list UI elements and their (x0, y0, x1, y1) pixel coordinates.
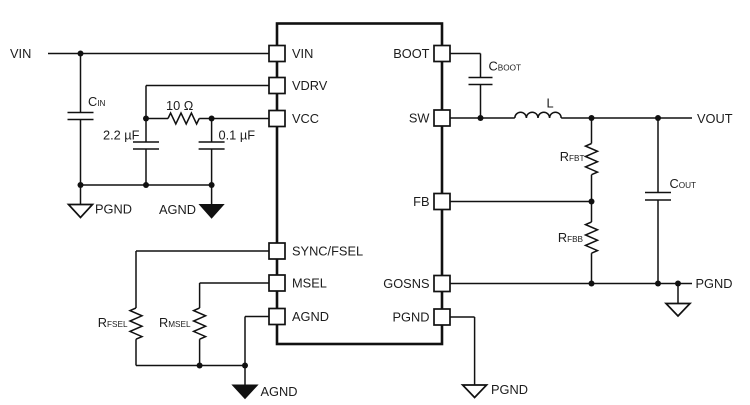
node junction CIN/rail (78, 182, 84, 188)
op-amp U1 (IC body) (277, 24, 442, 345)
svg-text:MSEL: MSEL (292, 276, 327, 291)
wire VIN input to pin (48, 53, 269, 55)
svg-text:10 Ω: 10 Ω (166, 98, 194, 113)
inductor L (515, 96, 561, 119)
ground PGND (bottom, open triangle) (463, 382, 528, 398)
capacitor COUT (645, 118, 696, 284)
resistor 10 Ohm (146, 98, 212, 124)
wire VDRV to divider (146, 86, 269, 119)
svg-text:AGND: AGND (261, 384, 298, 399)
svg-text:PGND: PGND (95, 202, 132, 217)
svg-text:SYNC/FSEL: SYNC/FSEL (292, 244, 363, 259)
wire SW to inductor (450, 117, 515, 119)
svg-text:BOOT: BOOT (393, 46, 429, 61)
pin VCC (269, 111, 285, 127)
svg-text:PGND: PGND (393, 310, 430, 325)
resistor RFBB (558, 202, 598, 284)
wire AGND pin to ground (245, 317, 269, 386)
svg-text:0.1 µF: 0.1 µF (219, 128, 256, 143)
wire CIN top lead (80, 54, 82, 113)
svg-text:AGND: AGND (292, 309, 329, 324)
node junction AGND/rail (242, 363, 248, 369)
node junction 0.1uF/rail (209, 182, 215, 188)
node junction VIN/CIN (78, 51, 84, 57)
node junction COUT/VOUT (655, 115, 661, 121)
svg-text:AGND: AGND (159, 202, 196, 217)
wire PGND pin to ground (450, 317, 475, 385)
wire CIN bottom lead (80, 120, 82, 186)
ground AGND (bottom, filled triangle) (233, 384, 298, 399)
wire inductor to VOUT (561, 117, 692, 119)
wire SYNC/FSEL to RFSEL (136, 251, 269, 308)
wire GOSNS rail (450, 283, 692, 285)
node junction VDRV/10ohm (143, 116, 149, 122)
node junction PGND/GOSNS (675, 281, 681, 287)
wire left ground rail (81, 184, 212, 186)
svg-text:PGND: PGND (491, 382, 528, 397)
wire FB to divider (450, 201, 592, 203)
node junction FB/divider (589, 199, 595, 205)
node junction CBOOT/SW (478, 115, 484, 121)
svg-text:VDRV: VDRV (292, 78, 328, 93)
svg-text:VCC: VCC (292, 111, 319, 126)
pin BOOT (434, 46, 450, 62)
wire bottom AGND rail (136, 365, 245, 367)
ground PGND (right, open triangle) (666, 284, 690, 317)
resistor RFSEL (98, 308, 142, 366)
ground AGND (left, filled triangle) (159, 185, 224, 218)
node junction RMSEL/rail (197, 363, 203, 369)
capacitor CIN (68, 94, 106, 120)
svg-text:L: L (547, 96, 554, 111)
node junction 2.2uF/rail (143, 182, 149, 188)
node junction RFBB/GOSNS (589, 281, 595, 287)
node junction COUT/GOSNS (655, 281, 661, 287)
node junction 10ohm/VCC (209, 116, 215, 122)
pin AGND (269, 309, 285, 325)
svg-text:SW: SW (409, 111, 431, 126)
pin GOSNS (434, 276, 450, 292)
capacitor CBOOT (469, 59, 521, 119)
ground PGND (left, open triangle) (69, 202, 132, 218)
pin FB (434, 194, 450, 210)
capacitor 0.1uF (199, 119, 256, 186)
svg-text:FB: FB (413, 194, 429, 209)
svg-text:VIN: VIN (292, 46, 313, 61)
wire MSEL to RMSEL (200, 283, 269, 308)
svg-text:VOUT: VOUT (697, 111, 733, 126)
pin SW (434, 110, 450, 126)
resistor RFBT (560, 118, 598, 202)
svg-text:VIN: VIN (10, 46, 31, 61)
wire VCC pin lead (212, 118, 269, 120)
pin SYNC/FSEL (269, 243, 285, 259)
capacitor 2.2uF (103, 119, 159, 186)
pin VDRV (269, 78, 285, 94)
svg-text:GOSNS: GOSNS (383, 276, 429, 291)
wire BOOT to CBOOT (450, 54, 481, 78)
resistor RMSEL (159, 308, 206, 366)
svg-text:PGND: PGND (696, 276, 733, 291)
node junction L/RFBT (589, 115, 595, 121)
pin VIN (269, 46, 285, 62)
pin PGND (434, 309, 450, 325)
svg-text:2.2 µF: 2.2 µF (103, 128, 140, 143)
wire PGND stub left (80, 185, 82, 205)
pin MSEL (269, 275, 285, 291)
